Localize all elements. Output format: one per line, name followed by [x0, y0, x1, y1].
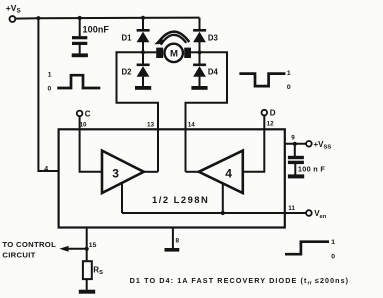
ground below C2	[288, 174, 304, 178]
wire C input to amp 3	[80, 116, 102, 172]
wire Rs to ground	[86, 279, 88, 290]
capacitor C2 lead	[294, 144, 296, 156]
svg-text:4: 4	[225, 166, 232, 180]
node junction Vs/pin4	[36, 16, 40, 20]
pin 9 stub	[285, 143, 306, 145]
capacitor C2 plates	[288, 156, 304, 159]
svg-text:8: 8	[176, 238, 180, 245]
svg-text:D: D	[270, 109, 276, 118]
node D1/D2 junction	[141, 50, 145, 54]
ground below C1	[72, 53, 88, 57]
pin 15 wire	[86, 228, 88, 262]
svg-text:13: 13	[147, 121, 155, 128]
svg-text:D4: D4	[208, 67, 219, 76]
svg-text:1/2 L298N: 1/2 L298N	[152, 194, 209, 205]
diode D2	[142, 52, 144, 63]
ground below D2	[135, 86, 151, 90]
svg-text:100 n F: 100 n F	[298, 165, 325, 174]
diode D3	[193, 29, 206, 32]
terminal +Vs	[10, 16, 16, 22]
node D3/D4 junction	[197, 50, 201, 54]
motor rotation arrows	[157, 32, 189, 44]
svg-text:9: 9	[291, 135, 295, 142]
waveform input D pulse (inverted)	[239, 74, 285, 87]
svg-text:M: M	[170, 49, 178, 60]
svg-text:0: 0	[331, 254, 335, 261]
wire top supply rail	[16, 18, 200, 19]
terminal +Vss	[306, 141, 312, 147]
svg-text:D1 TO D4: 1A FAST RECOVERY DIO: D1 TO D4: 1A FAST RECOVERY DIODE (trr ≤2…	[130, 276, 349, 287]
terminal D	[262, 110, 268, 116]
svg-text:10: 10	[80, 121, 88, 128]
diode D1	[142, 18, 144, 30]
IC 1/2 L298N box	[59, 129, 285, 227]
diode D4	[199, 52, 201, 63]
svg-text:D1: D1	[122, 34, 133, 43]
wire amp3 output	[144, 171, 158, 173]
svg-text:100nF: 100nF	[83, 25, 110, 35]
svg-text:11: 11	[288, 205, 295, 212]
wire amp4 output	[186, 171, 199, 173]
svg-text:D2: D2	[122, 67, 133, 76]
wire D input to amp 4	[243, 115, 264, 171]
svg-text:3: 3	[112, 166, 119, 180]
terminal Ven	[306, 210, 312, 216]
motor M	[156, 48, 163, 58]
node junction Vs/D1	[141, 16, 145, 20]
wire rail corner down to D3	[199, 18, 201, 30]
wire bridge center rail right	[191, 51, 200, 53]
pin 8 wire	[172, 228, 174, 249]
wire output 13 staircase	[117, 52, 159, 172]
wire to control circuit with arrow	[66, 248, 87, 250]
wire output 14 staircase	[186, 52, 228, 172]
wire enable from amp4	[222, 183, 224, 213]
wire Vs drop to pin 4	[38, 18, 58, 171]
svg-text:1: 1	[48, 72, 52, 79]
wire enable line to pin 11	[122, 212, 306, 214]
svg-text:14: 14	[188, 121, 196, 128]
op-amp 3	[102, 151, 144, 193]
svg-text:CIRCUIT: CIRCUIT	[2, 250, 35, 259]
svg-text:4: 4	[44, 166, 48, 173]
svg-text:0: 0	[287, 84, 291, 91]
svg-text:1: 1	[331, 239, 335, 246]
terminal C	[77, 111, 83, 117]
svg-text:1: 1	[287, 70, 291, 77]
waveform input C pulse	[57, 75, 100, 88]
svg-text:TO CONTROL: TO CONTROL	[2, 240, 56, 249]
wire C2 to ground	[294, 164, 296, 175]
wire enable from amp3	[121, 183, 123, 213]
node enable junction	[221, 211, 225, 215]
wire bridge center rail left	[143, 51, 156, 53]
node junction pin15/control	[85, 247, 89, 251]
capacitor C1 plates	[72, 36, 87, 39]
svg-text:C: C	[85, 110, 91, 119]
wire C1 to ground	[79, 45, 81, 54]
resistor Rs	[83, 261, 92, 279]
capacitor C1 lead	[79, 18, 81, 36]
ground pin 8	[165, 248, 180, 252]
op-amp 4	[199, 151, 243, 193]
ground below D4	[191, 86, 207, 90]
svg-text:D3: D3	[208, 34, 219, 43]
svg-text:15: 15	[89, 242, 97, 249]
node junction pin9/C2	[293, 142, 297, 146]
waveform enable step	[285, 242, 329, 255]
svg-text:12: 12	[267, 121, 275, 128]
svg-text:0: 0	[48, 85, 52, 92]
node junction Vs/C1	[78, 16, 82, 20]
ground below Rs	[79, 290, 95, 294]
